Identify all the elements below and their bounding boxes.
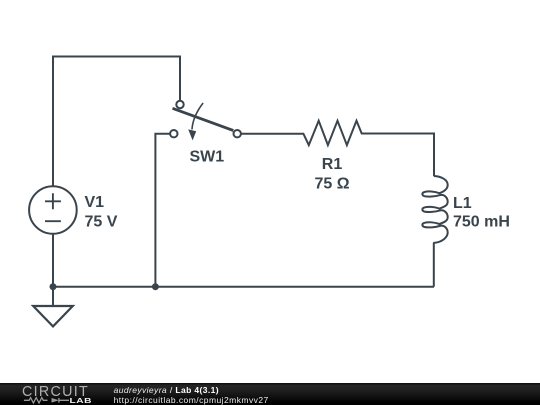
svg-text:LAB: LAB <box>70 396 93 404</box>
svg-text:http://circuitlab.com/cpmuj2mk: http://circuitlab.com/cpmuj2mkmvv27 <box>114 395 269 405</box>
svg-text:750 mH: 750 mH <box>453 214 510 231</box>
svg-text:L1: L1 <box>453 195 472 212</box>
svg-text:75 V: 75 V <box>85 214 118 231</box>
svg-text:SW1: SW1 <box>190 149 225 166</box>
svg-text:75 Ω: 75 Ω <box>314 176 349 193</box>
svg-text:R1: R1 <box>322 156 343 173</box>
svg-text:V1: V1 <box>85 194 105 211</box>
svg-text:audreyvieyra / Lab 4(3.1): audreyvieyra / Lab 4(3.1) <box>114 385 219 395</box>
